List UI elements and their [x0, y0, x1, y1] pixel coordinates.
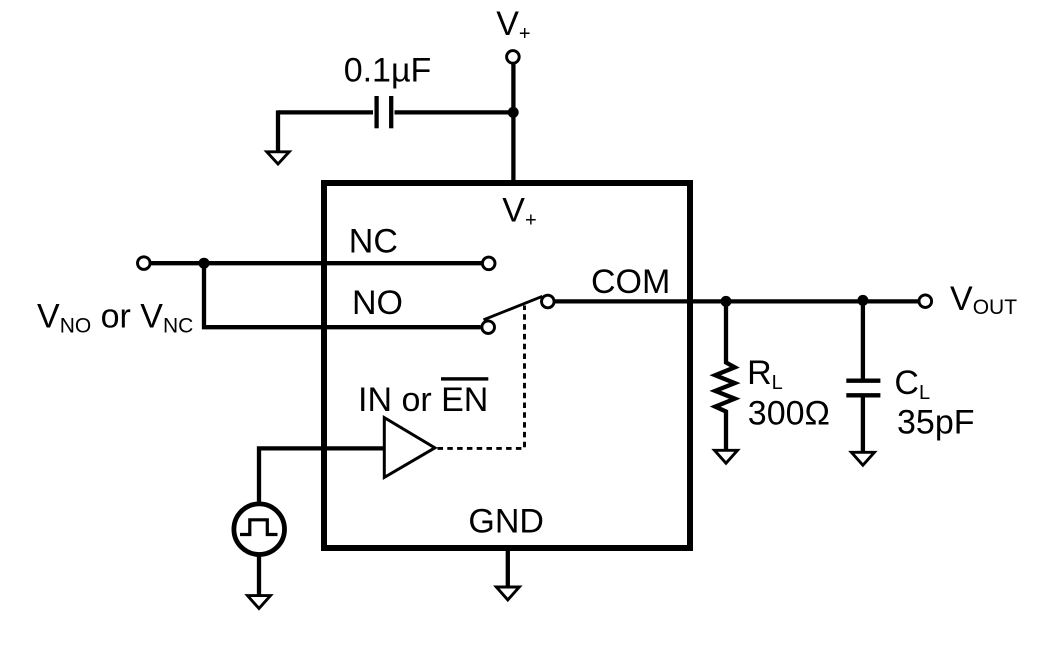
input terminal VNO/VNC	[138, 257, 151, 270]
switch lever S1	[484, 296, 543, 320]
capacitor CL plates	[846, 381, 880, 396]
wire bypass right segment	[395, 110, 514, 114]
junction COM/RL	[721, 296, 732, 307]
svg-text:GND: GND	[468, 502, 544, 540]
output terminal VOUT	[919, 295, 932, 308]
wire driver input	[259, 448, 384, 503]
wire NO branch	[204, 262, 481, 327]
IC box U1	[324, 183, 690, 548]
svg-text:300Ω: 300Ω	[748, 394, 830, 432]
wire GND pin	[506, 548, 510, 590]
svg-text:COM: COM	[591, 263, 670, 301]
wire bypass ground drop	[276, 110, 280, 154]
wire V+ stem	[511, 64, 515, 186]
ground (bypass)	[267, 152, 289, 164]
capacitor CL top lead	[861, 300, 865, 380]
wire bypass left segment	[278, 110, 373, 114]
junction NC/NO branch	[199, 258, 210, 269]
supply terminal V+	[507, 51, 520, 64]
svg-text:35pF: 35pF	[897, 403, 975, 441]
svg-text:IN or EN: IN or EN	[358, 381, 488, 419]
pulse waveform glyph	[240, 520, 278, 535]
resistor RL	[715, 301, 735, 453]
ground (RL)	[715, 450, 738, 463]
pulse source V1	[234, 504, 285, 555]
capacitor C1 plates	[377, 96, 392, 128]
pin terminal NO	[482, 321, 495, 334]
wire NC	[151, 261, 482, 265]
junction V+/bypass	[508, 107, 519, 118]
capacitor CL bottom lead	[861, 395, 865, 455]
ground (pulse source)	[248, 596, 271, 609]
svg-text:0.1µF: 0.1µF	[344, 52, 432, 90]
overline over EN	[441, 377, 488, 380]
svg-text:NC: NC	[349, 223, 398, 261]
dotted control line	[438, 306, 525, 449]
junction COM/CL	[857, 295, 868, 306]
svg-text:NO: NO	[352, 284, 403, 322]
ground (GND pin)	[496, 587, 519, 600]
ground (CL)	[851, 452, 874, 465]
wire COM to VOUT	[555, 299, 918, 303]
pin terminal NC	[482, 257, 495, 270]
wire pulse source to ground	[257, 555, 261, 599]
buffer driver A1	[384, 418, 435, 478]
pin terminal COM	[542, 295, 555, 308]
